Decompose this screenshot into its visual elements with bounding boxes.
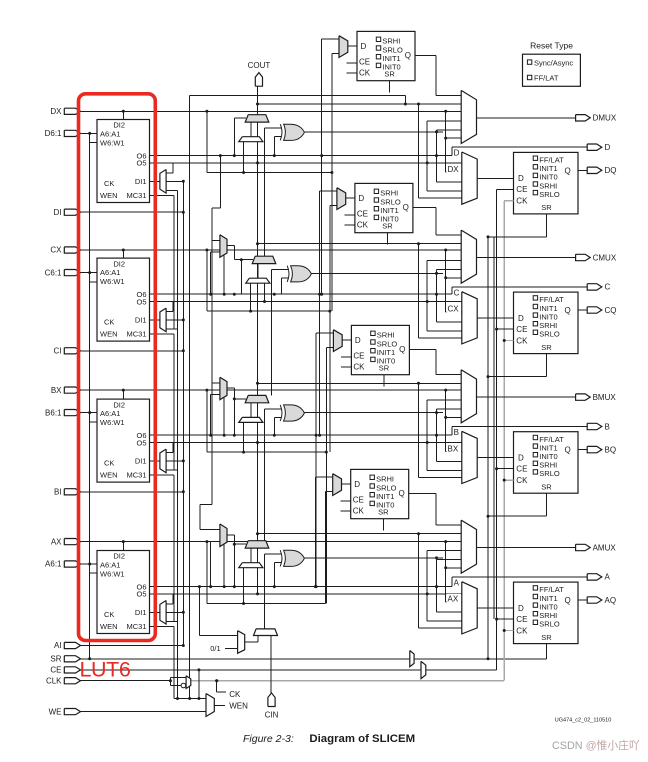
svg-text:C: C bbox=[454, 288, 460, 297]
svg-text:BX: BX bbox=[51, 386, 62, 395]
mux C CK gate bbox=[212, 240, 220, 242]
wire D carry mux select bbox=[234, 117, 246, 119]
svg-text:Reset Type: Reset Type bbox=[530, 41, 573, 51]
svg-text:CK: CK bbox=[104, 458, 114, 467]
node AX net label bbox=[447, 594, 462, 603]
wire A midFF Q to output mux bbox=[409, 492, 437, 494]
mux B MUXCY carry bbox=[245, 395, 269, 402]
svg-text:SR: SR bbox=[541, 483, 552, 492]
mux A MUXCY carry bbox=[245, 541, 269, 548]
wire WE into WEN mux bbox=[81, 711, 207, 713]
node C6:1 input pin bbox=[64, 270, 80, 276]
node WE input pin bbox=[64, 709, 80, 715]
wire LUT D O6 line bbox=[150, 155, 452, 157]
node output pin A bbox=[587, 574, 602, 580]
node output pin DMUX bbox=[576, 115, 591, 121]
svg-text:CX: CX bbox=[448, 305, 460, 314]
svg-text:INIT1: INIT1 bbox=[380, 206, 398, 215]
wire B DI1 mux output bbox=[150, 460, 160, 462]
wire C DI1 mux inputs bbox=[166, 311, 173, 313]
wire A carry internal bbox=[250, 548, 252, 563]
svg-text:O5: O5 bbox=[136, 438, 146, 447]
LUT A (LUT6) bbox=[97, 551, 150, 634]
mux SR sync select bbox=[410, 651, 414, 667]
svg-text:DX: DX bbox=[50, 107, 62, 116]
wire DMUX output line bbox=[477, 117, 576, 119]
wire D DI1 mux inputs bbox=[166, 172, 173, 174]
svg-text:W6:W1: W6:W1 bbox=[100, 418, 125, 427]
wire A CK gate lower branch bbox=[223, 545, 225, 587]
wire B midFF Q to output mux bbox=[409, 348, 436, 350]
wire SR bus vertical bbox=[487, 237, 489, 659]
wire A midFF SR stub bbox=[382, 519, 384, 531]
svg-text:COUT: COUT bbox=[248, 61, 271, 70]
svg-text:INIT0: INIT0 bbox=[376, 501, 394, 510]
svg-text:Figure 2-3:: Figure 2-3: bbox=[243, 733, 294, 745]
node BX net label bbox=[447, 444, 462, 453]
wire CX bypass line bbox=[81, 249, 462, 251]
LUT C (LUT6) bbox=[97, 258, 150, 341]
svg-text:D: D bbox=[518, 604, 524, 613]
node D6:1 input pin bbox=[64, 130, 80, 136]
wire D row aux line bbox=[207, 172, 332, 174]
mux C DI1 select bbox=[160, 308, 166, 332]
LUT B (LUT6) bbox=[97, 399, 150, 482]
mux A carry O5 select bbox=[239, 563, 263, 568]
wire DQ output bbox=[578, 169, 587, 171]
svg-text:CI: CI bbox=[54, 347, 62, 356]
svg-text:CE: CE bbox=[359, 58, 370, 67]
wire A O6 to A output bbox=[451, 577, 453, 587]
svg-text:Q: Q bbox=[564, 596, 570, 605]
node SR input pin bbox=[64, 656, 80, 662]
svg-text:O5: O5 bbox=[136, 159, 146, 168]
wire C FF SR route bbox=[546, 354, 548, 377]
mux B midFF input select bbox=[333, 330, 342, 352]
svg-text:AX: AX bbox=[448, 595, 459, 604]
LUT D (LUT6) bbox=[97, 120, 150, 203]
mux B DI1 select bbox=[160, 449, 166, 473]
wire SR line bbox=[81, 658, 410, 660]
svg-text:SR: SR bbox=[50, 655, 61, 664]
wire AI input line bbox=[81, 645, 184, 647]
wire D carry internal bbox=[250, 122, 252, 137]
mux B carry O5 select bbox=[239, 417, 263, 422]
svg-text:CX: CX bbox=[50, 246, 62, 255]
wire B carry internal bbox=[250, 403, 252, 418]
svg-text:Q: Q bbox=[405, 51, 411, 60]
mux D carry O5 select bbox=[239, 137, 263, 142]
svg-text:CIN: CIN bbox=[265, 711, 279, 720]
wire W6:W1 address bus vertical bbox=[89, 133, 91, 658]
node BI input pin bbox=[64, 489, 80, 495]
wire B6:1 input line bbox=[81, 412, 98, 414]
wire B O6 to B output bbox=[451, 427, 453, 436]
wire D carry-out branch bbox=[190, 95, 406, 97]
wire C row aux line bbox=[207, 310, 330, 312]
svg-text:Q: Q bbox=[398, 489, 404, 498]
svg-text:A6:A1: A6:A1 bbox=[100, 268, 120, 277]
wire B row aux line bbox=[207, 451, 326, 453]
svg-text:CK: CK bbox=[516, 336, 528, 345]
svg-text:C6:1: C6:1 bbox=[45, 268, 62, 277]
wire DX bypass line bbox=[81, 110, 462, 112]
svg-text:CE: CE bbox=[50, 666, 61, 675]
svg-text:D: D bbox=[518, 454, 524, 463]
svg-text:SRLO: SRLO bbox=[380, 197, 401, 206]
wire C XOR output bbox=[312, 272, 444, 274]
wire B FF CE tap bbox=[497, 468, 514, 470]
svg-text:AQ: AQ bbox=[605, 596, 617, 605]
svg-text:SRLO: SRLO bbox=[539, 469, 560, 478]
wire A FF CK tap bbox=[504, 630, 513, 632]
svg-text:DI1: DI1 bbox=[135, 177, 147, 186]
wire LUT C O6 line bbox=[150, 293, 452, 295]
wire C CK gate output bbox=[227, 245, 234, 247]
wire B DI1 mux inputs bbox=[166, 452, 173, 454]
svg-text:W6:W1: W6:W1 bbox=[100, 570, 125, 579]
wire D FF CE tap bbox=[497, 188, 514, 190]
svg-text:MC31: MC31 bbox=[126, 330, 146, 339]
wire BX bypass line bbox=[81, 389, 462, 391]
wire B XOR inputs bbox=[264, 408, 281, 410]
svg-text:SR: SR bbox=[541, 343, 552, 352]
wire D6:1 input line bbox=[81, 132, 98, 134]
wire CLK line bbox=[81, 680, 171, 682]
node DI input pin bbox=[64, 209, 80, 215]
svg-text:INIT0: INIT0 bbox=[382, 63, 400, 72]
wire C carry-out branch bbox=[258, 243, 462, 245]
wire LUT B MC31 line bbox=[150, 474, 174, 476]
wire C carry mux select bbox=[234, 259, 253, 261]
node DX input pin bbox=[64, 108, 80, 114]
svg-text:O5: O5 bbox=[136, 297, 146, 306]
flip-flop A mid (SRHI/SRLO/INIT) bbox=[351, 469, 409, 518]
gate B XOR (sum) bbox=[284, 405, 305, 421]
svg-text:DI1: DI1 bbox=[135, 457, 147, 466]
wire A XOR inputs bbox=[264, 553, 281, 555]
node B net label bbox=[453, 427, 462, 436]
wire LUT D O5 line bbox=[150, 162, 462, 164]
svg-text:D: D bbox=[355, 336, 361, 345]
svg-text:INIT0: INIT0 bbox=[377, 357, 395, 366]
wire D FF CK tap bbox=[504, 200, 513, 202]
svg-text:A6:A1: A6:A1 bbox=[100, 409, 120, 418]
svg-text:MC31: MC31 bbox=[126, 471, 146, 480]
svg-text:SRHI: SRHI bbox=[377, 331, 395, 340]
node A6:1 input pin bbox=[64, 561, 80, 567]
node AI input pin bbox=[64, 642, 80, 648]
mux D FF input select bbox=[462, 152, 477, 204]
mux C carry O5 select bbox=[246, 278, 270, 283]
wire carry chain vertical bbox=[257, 86, 259, 567]
wire CLK gray line bbox=[192, 680, 505, 682]
wire LUT A O5 line bbox=[150, 593, 462, 595]
mux A CK gate bbox=[200, 529, 220, 531]
svg-text:DQ: DQ bbox=[605, 166, 617, 175]
wire CE line bbox=[81, 669, 422, 671]
wire B midFF mux feed verticals bbox=[315, 333, 317, 587]
wire LUT B O6 line bbox=[150, 434, 452, 436]
svg-text:A6:1: A6:1 bbox=[45, 560, 62, 569]
node CE input pin bbox=[64, 667, 80, 673]
svg-text:CK: CK bbox=[357, 221, 369, 230]
wire C XOR inputs bbox=[271, 269, 288, 271]
svg-text:Diagram of SLICEM: Diagram of SLICEM bbox=[309, 733, 415, 745]
wire LUT D MC31 line bbox=[150, 194, 174, 196]
wire B FF CK tap bbox=[504, 479, 513, 481]
wire A FF SR route bbox=[546, 644, 548, 659]
mux D MUXCY carry bbox=[245, 115, 269, 122]
svg-text:A: A bbox=[605, 573, 611, 582]
svg-text:CK: CK bbox=[353, 363, 365, 372]
svg-text:DMUX: DMUX bbox=[593, 114, 617, 123]
svg-text:Q: Q bbox=[403, 203, 409, 212]
wire A DI1 mux output bbox=[150, 611, 160, 613]
mux A FF input select bbox=[462, 582, 477, 634]
node CI input pin bbox=[64, 348, 80, 354]
wire C6:1 input line bbox=[81, 272, 98, 274]
node AX input pin bbox=[64, 539, 80, 545]
svg-text:CK: CK bbox=[516, 476, 528, 485]
wire B carry mux select bbox=[234, 398, 246, 400]
wire LUT A MC31 line bbox=[150, 625, 174, 627]
svg-text:WE: WE bbox=[49, 707, 62, 716]
svg-text:AX: AX bbox=[51, 537, 62, 546]
wire CK tap stub bbox=[216, 681, 218, 692]
svg-text:Q: Q bbox=[564, 166, 570, 175]
wire DI input line bbox=[81, 211, 184, 213]
flip-flop B mid (SRHI/SRLO/INIT) bbox=[351, 325, 409, 374]
svg-text:SR: SR bbox=[541, 633, 552, 642]
wire B midFF SR stub bbox=[383, 375, 385, 387]
wire A XOR output bbox=[305, 557, 444, 559]
node CX input pin bbox=[64, 247, 80, 253]
svg-text:D: D bbox=[358, 194, 364, 203]
svg-text:DI: DI bbox=[54, 208, 62, 217]
wire B XOR output bbox=[305, 412, 444, 414]
node output pin D bbox=[587, 144, 602, 150]
svg-text:A6:A1: A6:A1 bbox=[100, 560, 120, 569]
svg-text:SRHI: SRHI bbox=[376, 475, 394, 484]
flip-flop C FF/LAT bbox=[514, 292, 579, 354]
svg-text:CK: CK bbox=[516, 197, 528, 206]
wire D FF D input bbox=[477, 177, 513, 179]
node output pin C bbox=[587, 284, 602, 290]
wire 0/1 mux output bbox=[245, 641, 258, 643]
svg-text:CE: CE bbox=[516, 465, 527, 474]
wire A row aux line bbox=[207, 603, 326, 605]
svg-text:0/1: 0/1 bbox=[210, 644, 220, 653]
node CX net label bbox=[447, 304, 462, 313]
mux D DI1 select bbox=[160, 170, 166, 194]
mux C output mux (to CMUX) bbox=[461, 230, 476, 283]
svg-text:LUT6: LUT6 bbox=[80, 658, 131, 682]
wire D midFF Q to output mux bbox=[415, 54, 436, 56]
flip-flop D mid (SRHI/SRLO/INIT) bbox=[357, 31, 415, 80]
svg-text:D: D bbox=[354, 480, 360, 489]
svg-text:WEN: WEN bbox=[100, 330, 118, 339]
gate C XOR (sum) bbox=[291, 266, 312, 282]
wire A6:1 input line bbox=[81, 563, 98, 565]
svg-text:Q: Q bbox=[399, 345, 405, 354]
wire A midFF CE/CK stubs bbox=[340, 500, 350, 502]
svg-text:SRLO: SRLO bbox=[376, 483, 397, 492]
wire WEN output bbox=[214, 704, 225, 706]
wire CIN vertical bbox=[270, 636, 272, 693]
wire BMUX output line bbox=[477, 396, 576, 398]
svg-text:SRHI: SRHI bbox=[380, 189, 398, 198]
node output pin B bbox=[587, 423, 602, 429]
wire B midFF CE/CK stubs bbox=[341, 356, 351, 358]
svg-text:CK: CK bbox=[516, 626, 528, 635]
wire AX bypass line bbox=[81, 541, 462, 543]
wire D midFF D input bbox=[348, 45, 357, 47]
wire C midFF mux feed verticals bbox=[319, 191, 321, 435]
svg-text:SRLO: SRLO bbox=[382, 45, 403, 54]
svg-text:SR: SR bbox=[541, 203, 552, 212]
gate D XOR (sum) bbox=[284, 124, 305, 140]
mux WEN gate bbox=[206, 694, 214, 717]
wire CMUX output line bbox=[477, 257, 576, 259]
mux B CK gate bbox=[212, 382, 220, 384]
svg-text:B6:1: B6:1 bbox=[45, 408, 62, 417]
wire C CK gate lower branch bbox=[223, 255, 225, 294]
wire carry-select staircase vertical bbox=[189, 96, 191, 699]
wire C DI1 mux output bbox=[150, 319, 160, 321]
node A net label bbox=[453, 578, 462, 587]
node CLK input pin bbox=[64, 678, 80, 684]
flip-flop D FF/LAT bbox=[514, 152, 579, 214]
svg-text:BMUX: BMUX bbox=[593, 393, 617, 402]
wire CLK true branch bbox=[169, 677, 171, 680]
mux A output mux (to AMUX) bbox=[461, 520, 476, 573]
wire BI input line bbox=[81, 491, 184, 493]
node output pin CQ bbox=[587, 307, 602, 313]
svg-text:MC31: MC31 bbox=[126, 622, 146, 631]
node output pin BQ bbox=[587, 446, 602, 452]
svg-text:BI: BI bbox=[54, 488, 62, 497]
wire D midFF SR stub bbox=[389, 81, 391, 93]
wire B CK gate lower branch bbox=[223, 398, 225, 436]
svg-text:AI: AI bbox=[54, 641, 62, 650]
svg-text:CE: CE bbox=[516, 615, 527, 624]
svg-text:DI1: DI1 bbox=[135, 316, 147, 325]
svg-text:O5: O5 bbox=[136, 590, 146, 599]
svg-text:SRLO: SRLO bbox=[539, 190, 560, 199]
wire CK chain vertical upper bbox=[219, 154, 222, 157]
node DX net label bbox=[447, 164, 462, 173]
mux C midFF input select bbox=[337, 188, 346, 210]
wire C output mux feeders bbox=[418, 244, 420, 338]
wire A midFF mux feed verticals bbox=[314, 477, 316, 587]
svg-text:CK: CK bbox=[104, 610, 114, 619]
wire D FF SR route bbox=[546, 214, 548, 237]
svg-text:B: B bbox=[454, 428, 459, 437]
node output pin AMUX bbox=[576, 544, 591, 550]
svg-text:WEN: WEN bbox=[229, 702, 248, 711]
wire C FF CK tap bbox=[504, 340, 513, 342]
mux CE select bbox=[421, 661, 426, 678]
svg-text:W6:W1: W6:W1 bbox=[100, 139, 125, 148]
svg-text:CK: CK bbox=[104, 179, 114, 188]
node COUT pin bbox=[255, 73, 262, 87]
svg-text:SRHI: SRHI bbox=[382, 37, 400, 46]
wire A carry mux select bbox=[234, 543, 246, 545]
svg-text:WEN: WEN bbox=[100, 471, 118, 480]
svg-text:CE: CE bbox=[516, 325, 527, 334]
svg-text:SRLO: SRLO bbox=[539, 620, 560, 629]
mux C FF input select bbox=[462, 292, 477, 344]
node output pin DQ bbox=[587, 167, 602, 173]
wire C FF CE tap bbox=[497, 328, 514, 330]
wire D midFF CE/CK stubs bbox=[347, 62, 357, 64]
wire WEN top input from CE bbox=[198, 670, 200, 699]
svg-text:CQ: CQ bbox=[605, 306, 617, 315]
mux A midFF input select bbox=[333, 474, 342, 496]
svg-text:D: D bbox=[605, 143, 611, 152]
wire AMUX output line bbox=[477, 547, 576, 549]
svg-text:CE: CE bbox=[353, 496, 364, 505]
wire CQ output bbox=[578, 309, 587, 311]
mux CLK polarity bbox=[186, 676, 191, 689]
svg-text:Q: Q bbox=[564, 446, 570, 455]
wire LUT B O5 line bbox=[150, 442, 462, 444]
wire D DI1 mux output bbox=[150, 180, 160, 182]
svg-text:DI1: DI1 bbox=[135, 608, 147, 617]
svg-text:CK: CK bbox=[229, 690, 241, 699]
svg-text:UG474_c2_02_110510: UG474_c2_02_110510 bbox=[555, 718, 611, 724]
svg-text:INIT0: INIT0 bbox=[380, 215, 398, 224]
wire DI bus vertical bbox=[182, 181, 184, 645]
node BX input pin bbox=[64, 387, 80, 393]
svg-text:D: D bbox=[454, 149, 460, 158]
node CIN pin bbox=[268, 693, 275, 707]
svg-text:BX: BX bbox=[448, 444, 459, 453]
svg-text:FF/LAT: FF/LAT bbox=[534, 74, 559, 83]
svg-text:MC31: MC31 bbox=[126, 191, 146, 200]
node output pin AQ bbox=[587, 597, 602, 603]
svg-text:CE: CE bbox=[353, 352, 364, 361]
mux B output mux (to BMUX) bbox=[461, 370, 476, 423]
wire D midFF mux feed verticals bbox=[321, 39, 323, 294]
mux D output mux (to DMUX) bbox=[461, 90, 476, 143]
wire D O6 to D output bbox=[451, 147, 453, 155]
wire CK chain vertical lower bbox=[199, 505, 201, 530]
svg-text:Sync/Async: Sync/Async bbox=[534, 58, 573, 67]
svg-text:INIT1: INIT1 bbox=[377, 348, 395, 357]
wire A FF D input bbox=[477, 607, 513, 609]
svg-text:CK: CK bbox=[359, 69, 371, 78]
wire C FF D input bbox=[477, 317, 513, 319]
svg-text:A6:A1: A6:A1 bbox=[100, 129, 120, 138]
wire C midFF SR stub bbox=[387, 233, 389, 245]
wire C midFF D input bbox=[346, 197, 355, 199]
svg-text:CK: CK bbox=[104, 317, 114, 326]
svg-text:CSDN @惟小庄吖: CSDN @惟小庄吖 bbox=[552, 738, 640, 752]
svg-text:CK: CK bbox=[353, 507, 365, 516]
wire B midFF D input bbox=[342, 339, 351, 341]
svg-text:AMUX: AMUX bbox=[593, 543, 617, 552]
node C net label bbox=[453, 288, 462, 297]
flip-flop C mid (SRHI/SRLO/INIT) bbox=[355, 183, 413, 232]
wire CLK inverted branch bbox=[169, 681, 171, 686]
wire A carry-out branch bbox=[258, 533, 462, 535]
wire A CK gate output bbox=[227, 534, 234, 536]
svg-text:D6:1: D6:1 bbox=[45, 129, 62, 138]
svg-text:D: D bbox=[518, 314, 524, 323]
wire C O6 to C output bbox=[451, 287, 453, 294]
